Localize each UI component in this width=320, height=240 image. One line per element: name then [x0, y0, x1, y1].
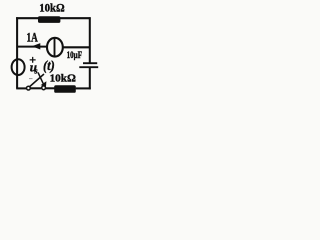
svg-text:s: s — [34, 66, 38, 75]
svg-text:10µF: 10µF — [67, 51, 83, 61]
svg-text:1A: 1A — [27, 30, 39, 45]
svg-text:10kΩ: 10kΩ — [39, 0, 65, 14]
svg-text:(t): (t) — [43, 59, 55, 74]
svg-text:10kΩ: 10kΩ — [50, 73, 76, 84]
